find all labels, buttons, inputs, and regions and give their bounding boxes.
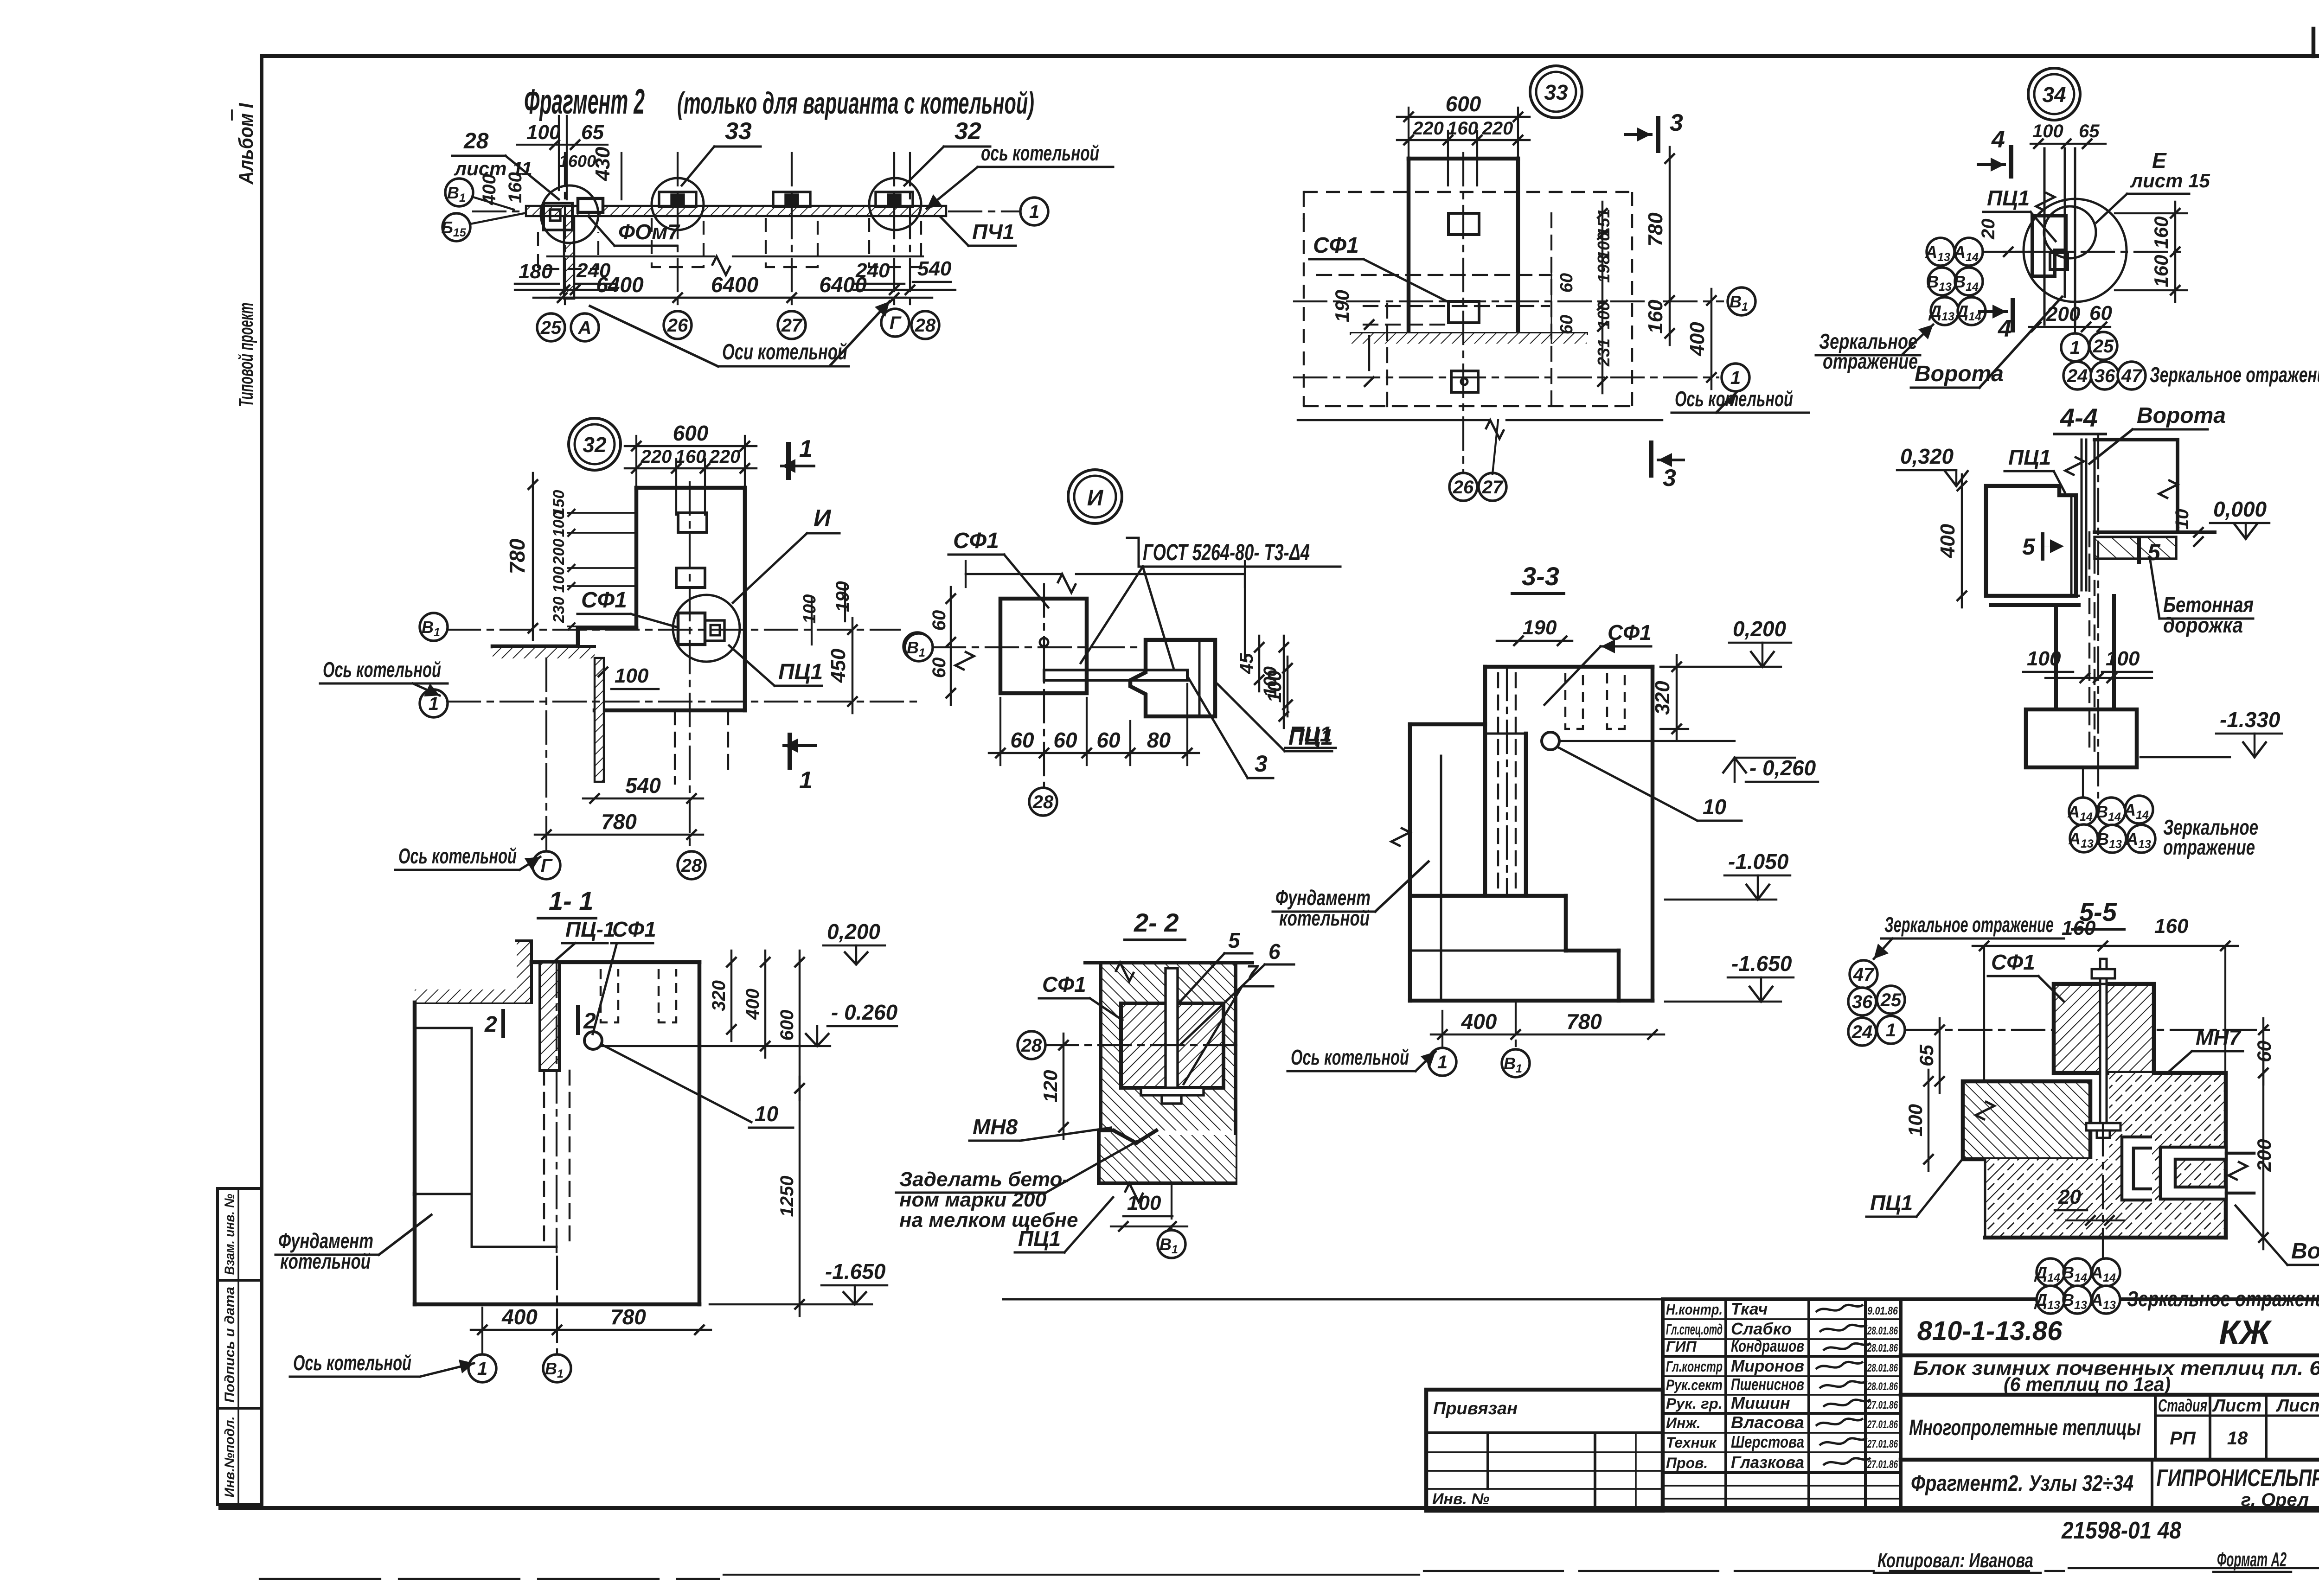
sec11: slab top xyxy=(532,960,699,964)
view32: right dims 100 190 450 xyxy=(811,598,813,645)
sec22: axis B1 circle bottom xyxy=(1171,1186,1172,1230)
sec22: lower block with V-notch xyxy=(1099,1130,1236,1183)
title block top extension line xyxy=(1002,1298,1663,1301)
svg-text:Г: Г xyxy=(541,855,553,876)
svg-text:5: 5 xyxy=(2147,539,2161,565)
svg-text:1: 1 xyxy=(429,694,439,714)
svg-text:100: 100 xyxy=(550,511,568,537)
svg-text:540: 540 xyxy=(625,773,661,798)
svg-text:10: 10 xyxy=(2172,509,2192,530)
view32: bottom dims 540 780 xyxy=(583,798,703,799)
svg-text:780: 780 xyxy=(601,810,637,834)
view33: small squares xyxy=(1448,213,1479,235)
sec22: SF1 inner block xyxy=(1121,1003,1224,1088)
svg-text:1: 1 xyxy=(799,767,813,794)
sec11: main outline right part xyxy=(698,962,702,1304)
svg-text:1: 1 xyxy=(477,1359,487,1379)
viewI: right dims 45 100 xyxy=(1258,636,1260,691)
plan: perpendicular wall band at axis 25 xyxy=(564,216,574,299)
svg-text:9.01.86: 9.01.86 xyxy=(1867,1305,1898,1317)
svg-text:Зеркальное отражение: Зеркальное отражение xyxy=(2127,1287,2319,1311)
svg-text:6400: 6400 xyxy=(596,273,644,297)
viewI: right vertical ref line xyxy=(1244,574,1246,658)
svg-text:(только для варианта с: (только для варианта с котельной) xyxy=(677,86,1034,120)
view34: big circles xyxy=(2024,199,2127,302)
view33: dim 220 160 220 xyxy=(1397,139,1530,141)
plan: vertical axis lines xyxy=(564,153,566,308)
plan: node circles xyxy=(541,185,598,243)
svg-text:780: 780 xyxy=(1566,1009,1602,1034)
svg-text:5: 5 xyxy=(1228,928,1241,952)
svg-text:МН7: МН7 xyxy=(2196,1025,2242,1049)
sec11: central dashed column lines xyxy=(543,1071,545,1245)
svg-text:28.01.86: 28.01.86 xyxy=(1867,1380,1898,1393)
plan: foundation bottom line with break xyxy=(547,255,714,257)
svg-text:100: 100 xyxy=(2027,647,2061,670)
svg-text:27.01.86: 27.01.86 xyxy=(1867,1418,1898,1431)
svg-text:0,200: 0,200 xyxy=(1733,617,1787,641)
svg-text:2: 2 xyxy=(583,1009,596,1034)
svg-text:60: 60 xyxy=(1557,315,1576,334)
svg-text:36: 36 xyxy=(2095,366,2115,386)
svg-text:Листов: Листов xyxy=(2275,1396,2319,1416)
svg-text:100: 100 xyxy=(1127,1192,1161,1214)
sec55: axis to bottom circles xyxy=(2102,1123,2104,1258)
svg-text:Формат А2: Формат А2 xyxy=(2217,1548,2287,1571)
viewI: bar item 3 xyxy=(1044,670,1187,680)
svg-text:СФ1: СФ1 xyxy=(1042,972,1086,996)
sec33: break mark on left wall xyxy=(1391,828,1410,846)
view33: section mark 3 top xyxy=(1656,118,1660,151)
title block: signature table xyxy=(1663,1299,1901,1511)
svg-text:27.01.86: 27.01.86 xyxy=(1867,1458,1898,1471)
sec22: axis 28 circle + line xyxy=(1018,1031,1045,1059)
sec55: bolt top xyxy=(2100,959,2107,984)
svg-text:27: 27 xyxy=(1482,477,1504,498)
svg-text:200: 200 xyxy=(2046,303,2081,326)
svg-text:ПЦ1: ПЦ1 xyxy=(1987,186,2030,210)
sec22: dim 120 xyxy=(1063,1034,1064,1139)
viewI: weld leaders xyxy=(1081,567,1143,663)
svg-text:190: 190 xyxy=(1331,290,1353,322)
svg-text:780: 780 xyxy=(610,1305,646,1329)
svg-text:200: 200 xyxy=(550,539,568,566)
svg-text:ПЦ1: ПЦ1 xyxy=(1018,1226,1061,1251)
svg-text:28: 28 xyxy=(681,855,702,876)
svg-text:Ось котельной: Ось котельной xyxy=(398,844,517,868)
svg-text:540: 540 xyxy=(917,257,952,280)
svg-text:6400: 6400 xyxy=(819,273,867,297)
svg-text:КЖ: КЖ xyxy=(2219,1314,2272,1351)
svg-text:28: 28 xyxy=(1021,1035,1042,1056)
svg-text:2: 2 xyxy=(484,1012,497,1037)
view33: section mark 3 bottom xyxy=(1649,443,1653,475)
svg-text:Пшениснов: Пшениснов xyxy=(1731,1375,1804,1394)
svg-text:60: 60 xyxy=(2253,1041,2275,1062)
svg-text:СФ1: СФ1 xyxy=(953,529,999,553)
svg-text:220: 220 xyxy=(641,447,672,467)
svg-text:190: 190 xyxy=(1523,616,1557,639)
plan: axis circles left xyxy=(445,179,473,206)
svg-text:10: 10 xyxy=(1703,795,1727,819)
svg-text:6400: 6400 xyxy=(711,273,759,297)
sec44: door vertical lines xyxy=(2081,440,2083,590)
svg-text:190: 190 xyxy=(833,581,853,612)
privyazan table xyxy=(1426,1390,1663,1511)
svg-text:ПЦ1: ПЦ1 xyxy=(778,660,823,684)
svg-text:24: 24 xyxy=(2067,366,2088,386)
sec55: dims right 60 200 xyxy=(2262,1018,2264,1085)
svg-text:1250: 1250 xyxy=(777,1176,797,1217)
svg-text:- 0,260: - 0,260 xyxy=(1749,756,1816,780)
view32: inner small squares xyxy=(678,513,707,532)
sec55: dims left 65 100 xyxy=(1939,1018,1941,1093)
svg-text:СФ1: СФ1 xyxy=(612,917,656,941)
svg-text:Техник: Техник xyxy=(1666,1434,1717,1451)
svg-text:Власова: Власова xyxy=(1731,1413,1804,1432)
svg-text:Ось котельной: Ось котельной xyxy=(1291,1045,1409,1069)
svg-text:198: 198 xyxy=(1594,255,1613,283)
svg-text:26: 26 xyxy=(667,315,688,336)
svg-text:Инв. №: Инв. № xyxy=(1432,1490,1489,1508)
plan: bottom axis circles xyxy=(537,313,565,341)
sec44: floor line 0.000 xyxy=(2095,530,2215,534)
svg-text:65: 65 xyxy=(2079,121,2100,141)
svg-text:100: 100 xyxy=(1263,670,1285,702)
svg-text:45: 45 xyxy=(1236,653,1257,674)
view33: center vertical axis xyxy=(1462,153,1464,473)
svg-text:отражение: отражение xyxy=(2163,835,2255,859)
view33: inner dashed verticals xyxy=(1386,304,1388,406)
svg-text:3: 3 xyxy=(1663,465,1676,492)
sec11: right dim chains xyxy=(730,951,732,1041)
view34: column plan shape xyxy=(2032,216,2066,276)
svg-text:Привязан: Привязан xyxy=(1433,1399,1518,1418)
svg-text:РП: РП xyxy=(2170,1428,2196,1449)
svg-text:33: 33 xyxy=(725,118,752,145)
node 33 marker circle xyxy=(1530,66,1582,118)
svg-text:60: 60 xyxy=(929,658,949,678)
svg-text:47: 47 xyxy=(1853,964,1875,985)
view32: vertical wall band hatched xyxy=(595,658,604,782)
svg-text:ПЦ1: ПЦ1 xyxy=(2008,445,2051,469)
svg-text:4-4: 4-4 xyxy=(2060,403,2098,432)
svg-text:А: А xyxy=(578,318,592,338)
svg-text:1: 1 xyxy=(2070,338,2080,358)
svg-text:Ось котельной: Ось котельной xyxy=(293,1351,411,1375)
view33: right small dim chain xyxy=(1602,202,1603,393)
svg-text:И: И xyxy=(814,505,832,532)
sec44: level -1.330 xyxy=(2140,756,2230,758)
svg-text:60: 60 xyxy=(929,610,949,631)
svg-text:180: 180 xyxy=(519,260,553,283)
svg-text:60: 60 xyxy=(1053,728,1077,752)
svg-text:220: 220 xyxy=(1412,118,1444,139)
view33: dashed boundary rect xyxy=(1304,192,1632,406)
plan: node assembly at axis 25 xyxy=(544,203,572,230)
svg-text:24: 24 xyxy=(1851,1022,1873,1042)
svg-text:320: 320 xyxy=(1651,681,1674,715)
svg-text:160: 160 xyxy=(1447,118,1478,139)
svg-text:Копировал: Иванова: Копировал: Иванова xyxy=(1877,1549,2033,1572)
svg-text:400: 400 xyxy=(501,1305,538,1329)
svg-text:600: 600 xyxy=(673,421,709,445)
svg-text:1: 1 xyxy=(1029,202,1039,222)
svg-text:400: 400 xyxy=(743,989,763,1020)
svg-text:Типовой проект: Типовой проект xyxy=(235,303,257,407)
viewI: axis B1 circle xyxy=(905,633,933,661)
svg-text:160: 160 xyxy=(2150,255,2172,287)
view32: axis Г vertical xyxy=(545,658,547,851)
svg-text:Рук.сект: Рук.сект xyxy=(1666,1377,1723,1393)
sec33: top slab outline xyxy=(1485,665,1653,669)
viewI: left plate SF1 xyxy=(1000,599,1087,693)
svg-text:100: 100 xyxy=(526,121,561,144)
view34: right dim 160 160 xyxy=(2174,202,2176,302)
svg-text:780: 780 xyxy=(1644,212,1667,247)
view33: inner dashed horizontals xyxy=(1364,305,1549,307)
svg-text:ГИП: ГИП xyxy=(1666,1338,1697,1355)
svg-text:Н.контр.: Н.контр. xyxy=(1666,1301,1723,1318)
svg-text:СФ1: СФ1 xyxy=(1991,950,2035,974)
sec44: center axis xyxy=(2097,436,2099,798)
node I marker circle xyxy=(1068,470,1122,523)
node 34 marker circle xyxy=(2028,68,2080,120)
svg-text:Стадия: Стадия xyxy=(2158,1396,2207,1416)
svg-text:Ткач: Ткач xyxy=(1731,1299,1768,1318)
sec55: washer bottom of bolt xyxy=(2086,1123,2120,1130)
sec33: dim 320 xyxy=(1676,655,1678,741)
sec11: hatched column PTs-1 xyxy=(540,962,559,1071)
title block: main part xyxy=(1901,1299,2319,1511)
sec55: SF1 block xyxy=(2054,984,2154,1073)
sec44: dim 400 xyxy=(1961,474,1963,607)
svg-text:100: 100 xyxy=(800,594,820,624)
view33: ground line with hatch xyxy=(1351,332,1587,335)
sec22: break mark bottom xyxy=(1125,1183,1143,1202)
sec55: left panel PTs1 xyxy=(1963,1081,2090,1159)
node 32 marker circle xyxy=(569,418,621,470)
svg-text:(6 теплиц по 1га): (6 теплиц по 1га) xyxy=(2004,1373,2171,1396)
view32: node detail parts xyxy=(678,613,705,645)
view32: main column outline xyxy=(636,486,745,490)
sec33: dim 100 left xyxy=(1287,657,1288,716)
svg-text:3: 3 xyxy=(1670,109,1683,136)
svg-text:26: 26 xyxy=(1453,477,1474,498)
svg-text:ГОСТ 5264-80- Т3-Δ4: ГОСТ 5264-80- Т3-Δ4 xyxy=(1143,539,1310,565)
svg-text:28: 28 xyxy=(1032,792,1054,812)
bottom sheet edge xyxy=(260,1578,719,1580)
svg-text:27.01.86: 27.01.86 xyxy=(1867,1399,1898,1411)
sec55: mirrored circles bottom xyxy=(2037,1258,2064,1286)
svg-text:Миронов: Миронов xyxy=(1731,1356,1804,1375)
svg-text:160: 160 xyxy=(2154,915,2189,938)
svg-text:0,000: 0,000 xyxy=(2213,497,2267,521)
svg-text:400: 400 xyxy=(1686,322,1709,357)
plan: dim line 6400 x3 xyxy=(551,297,906,299)
viewI: bottom dim 60 60 60 80 xyxy=(989,752,1199,754)
svg-text:450: 450 xyxy=(827,648,850,683)
svg-text:Шерстова: Шерстова xyxy=(1731,1432,1804,1451)
svg-text:32: 32 xyxy=(955,118,981,145)
svg-text:430: 430 xyxy=(591,147,614,181)
svg-text:1600: 1600 xyxy=(559,152,596,171)
svg-text:4: 4 xyxy=(1998,315,2012,342)
view33: main wall outline xyxy=(1409,157,1518,161)
svg-text:400: 400 xyxy=(479,174,500,205)
view33: bottom circles 26 27 xyxy=(1449,473,1477,501)
view32: section mark 1 top xyxy=(786,444,791,478)
svg-text:47: 47 xyxy=(2121,366,2143,386)
svg-text:320: 320 xyxy=(709,980,729,1011)
viewI: top line with break xyxy=(966,573,1062,575)
svg-text:ГИПРОНИСЕЛЬПРОМ: ГИПРОНИСЕЛЬПРОМ xyxy=(2157,1465,2319,1492)
viewI: left dims 60 60 xyxy=(950,587,952,705)
svg-text:100: 100 xyxy=(1904,1104,1926,1136)
sec11: bottom circles xyxy=(468,1354,496,1382)
sec11: left steps outline xyxy=(413,1002,417,1194)
sheet inner frame xyxy=(262,54,2319,58)
svg-text:27.01.86: 27.01.86 xyxy=(1867,1438,1898,1450)
svg-text:1- 1: 1- 1 xyxy=(549,886,594,915)
viewI: right block PTs1 xyxy=(1130,640,1215,716)
svg-text:400: 400 xyxy=(1936,523,1959,558)
view33: dim 600 xyxy=(1397,116,1530,118)
svg-text:6: 6 xyxy=(1268,939,1281,964)
svg-text:Кондрашов: Кондрашов xyxy=(1731,1336,1804,1355)
view33: axis 1 horizontal xyxy=(1294,377,1718,378)
svg-text:0,320: 0,320 xyxy=(1900,444,1954,468)
svg-text:100: 100 xyxy=(550,567,568,593)
page number 47 xyxy=(2312,29,2316,56)
view33: right dims 780 160 xyxy=(1669,147,1671,345)
svg-text:ном марки 200: ном марки 200 xyxy=(899,1188,1046,1211)
svg-text:Ворота: Ворота xyxy=(2291,1239,2319,1264)
svg-text:5: 5 xyxy=(2022,534,2036,560)
svg-text:25: 25 xyxy=(2093,336,2114,357)
svg-text:32: 32 xyxy=(583,433,607,457)
view33: dashed rect bottom xyxy=(1304,405,1632,407)
view33: bottom line with break xyxy=(1298,419,1489,421)
sec55: C-channel MN7 xyxy=(2122,1137,2152,1200)
sec11: ground hatch top-left xyxy=(415,1001,532,1004)
sec11: hole circle + label 10 xyxy=(584,1032,602,1049)
svg-text:Ось котельной: Ось котельной xyxy=(323,658,441,682)
svg-text:ПЦ1: ПЦ1 xyxy=(1289,722,1332,746)
svg-text:36: 36 xyxy=(1852,992,1873,1012)
view32: section mark 1 bottom xyxy=(788,735,792,767)
sec33: central column w/ dashed lines xyxy=(1485,894,1526,898)
sec55: gate bracket xyxy=(2160,1147,2226,1199)
view32: dashed verticals below xyxy=(674,710,676,784)
viewI: horizontal axis xyxy=(933,646,1136,648)
plan: horizontal axis line B15 with circle 1 xyxy=(473,211,1019,212)
sec33: inner vertical line xyxy=(1440,756,1442,1001)
svg-text:Е: Е xyxy=(2152,148,2167,172)
svg-text:28.01.86: 28.01.86 xyxy=(1867,1325,1898,1337)
svg-text:65: 65 xyxy=(581,121,604,144)
svg-text:60: 60 xyxy=(1010,728,1034,752)
svg-text:Альбом I: Альбом I xyxy=(235,103,257,185)
view32: axis circles left xyxy=(420,613,448,641)
svg-text:28: 28 xyxy=(463,129,489,153)
svg-text:60: 60 xyxy=(1557,273,1576,293)
viewI: break mark left of plate xyxy=(955,651,974,670)
svg-text:810-1-13.86: 810-1-13.86 xyxy=(1917,1316,2063,1346)
svg-text:80: 80 xyxy=(1147,728,1171,752)
svg-text:Гл.констр: Гл.констр xyxy=(1666,1358,1723,1375)
viewI: axis 28 vertical + circle xyxy=(1043,584,1045,787)
svg-text:- 0.260: - 0.260 xyxy=(831,1000,898,1024)
svg-text:33: 33 xyxy=(1544,80,1568,104)
svg-text:Заделать бето-: Заделать бето- xyxy=(899,1168,1069,1191)
svg-text:27: 27 xyxy=(781,315,803,336)
svg-text:Фрагмент2. Узлы 32÷34: Фрагмент2. Узлы 32÷34 xyxy=(1911,1471,2133,1496)
svg-text:100: 100 xyxy=(615,664,649,687)
svg-text:Оси котельной: Оси котельной xyxy=(722,340,847,364)
svg-text:МН8: МН8 xyxy=(973,1115,1018,1139)
svg-text:600: 600 xyxy=(777,1010,797,1041)
svg-text:7: 7 xyxy=(1246,960,1259,984)
svg-text:60: 60 xyxy=(1096,728,1121,752)
svg-text:160: 160 xyxy=(2150,216,2172,249)
svg-text:20: 20 xyxy=(1978,219,1999,240)
svg-text:Глазкова: Глазкова xyxy=(1731,1453,1804,1472)
svg-text:120: 120 xyxy=(1039,1070,1061,1102)
view32: right axis circle B1 xyxy=(903,632,931,660)
svg-text:1: 1 xyxy=(1730,368,1741,388)
svg-text:25: 25 xyxy=(1880,990,1902,1010)
svg-text:1: 1 xyxy=(1886,1020,1896,1041)
svg-text:Взам. инв. №: Взам. инв. № xyxy=(222,1194,237,1275)
view34: mirrored axis circles bottom xyxy=(2061,333,2089,361)
svg-text:Пров.: Пров. xyxy=(1666,1455,1708,1471)
svg-text:СФ1: СФ1 xyxy=(1313,233,1359,258)
svg-text:0,200: 0,200 xyxy=(827,919,881,944)
svg-text:20: 20 xyxy=(2058,1186,2081,1208)
svg-text:г. Орел: г. Орел xyxy=(2241,1490,2309,1510)
plan: column marks on wall xyxy=(659,192,696,207)
svg-text:ПЦ1: ПЦ1 xyxy=(1870,1191,1913,1215)
svg-text:котельной: котельной xyxy=(1279,906,1370,930)
view34: door frame vertical lines xyxy=(2044,148,2046,325)
sec55: horizontal axis xyxy=(1906,1029,2273,1031)
svg-text:котельной: котельной xyxy=(280,1249,371,1273)
sec55: right mass xyxy=(1985,1073,2226,1238)
svg-text:3-3: 3-3 xyxy=(1522,562,1559,591)
svg-text:-1.650: -1.650 xyxy=(825,1259,886,1283)
svg-text:21598-01 48: 21598-01 48 xyxy=(2061,1517,2181,1544)
view32: horizontal axis B1 xyxy=(448,629,900,631)
svg-text:дорожка: дорожка xyxy=(2163,613,2243,637)
svg-text:1: 1 xyxy=(799,435,813,462)
svg-text:Лист: Лист xyxy=(2212,1396,2261,1416)
svg-text:600: 600 xyxy=(1446,92,1481,116)
svg-text:65: 65 xyxy=(1915,1045,1937,1066)
left margin stamp boxes xyxy=(218,1188,262,1505)
svg-text:780: 780 xyxy=(505,538,529,574)
view32: node I circle xyxy=(673,595,740,662)
svg-text:Инж.: Инж. xyxy=(1666,1415,1701,1431)
svg-text:ось котельной: ось котельной xyxy=(981,141,1099,165)
view34: axis circle pairs xyxy=(1927,238,1954,266)
svg-text:28.01.86: 28.01.86 xyxy=(1867,1362,1898,1374)
view32: center vertical axis xyxy=(689,482,691,851)
svg-text:160: 160 xyxy=(505,172,525,203)
sec11: bottom dims 400 780 xyxy=(471,1329,711,1331)
view34: axes xyxy=(1976,251,2180,253)
svg-text:230: 230 xyxy=(550,597,568,624)
